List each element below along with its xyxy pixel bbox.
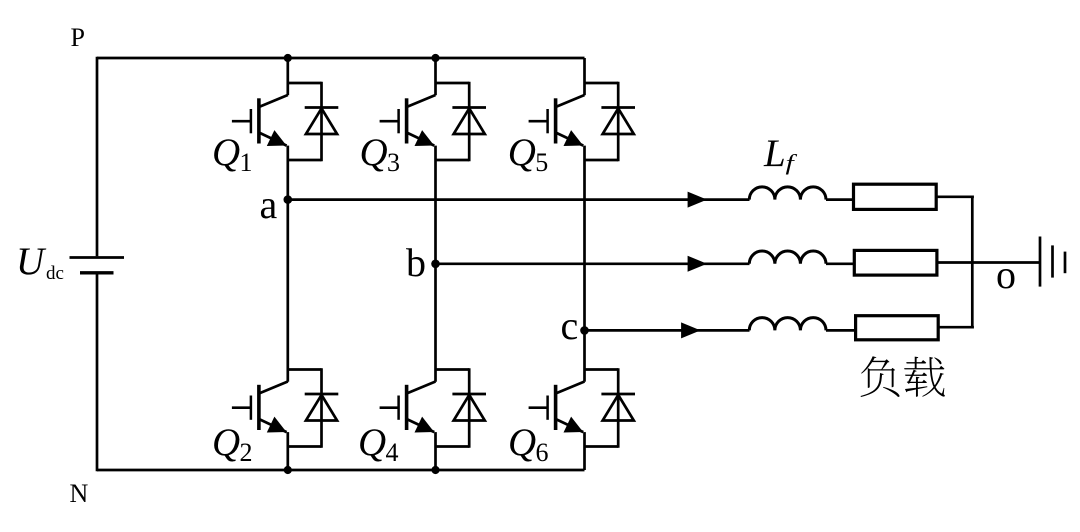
- svg-text:5: 5: [535, 148, 548, 177]
- wire: emitter of Q5: [583, 146, 586, 331]
- svg-text:Q: Q: [508, 421, 536, 464]
- transistor Q6 (IGBT): [529, 382, 585, 433]
- junction: P rail / leg b: [431, 54, 439, 62]
- wire: positive DC rail (P): [97, 57, 585, 60]
- wire: collector of Q4: [434, 264, 437, 382]
- label Q1: [212, 131, 253, 177]
- label Q6: [508, 421, 549, 467]
- arrow: phase c current direction: [681, 322, 700, 338]
- wire: inductor to load resistor phase c: [826, 329, 856, 332]
- diode D3 (anti-parallel with Q3): [436, 82, 487, 161]
- svg-text:L: L: [763, 132, 786, 175]
- transistor Q1 (IGBT): [232, 95, 288, 146]
- node P label: [71, 23, 85, 52]
- junction: N rail / leg b: [431, 466, 439, 474]
- label Q5: [508, 131, 549, 177]
- svg-text:Q: Q: [358, 421, 386, 464]
- svg-text:1: 1: [240, 148, 253, 177]
- label: 负载 (load): [861, 356, 945, 397]
- ground (earth) symbol: [1040, 237, 1065, 287]
- wire: collector of Q6: [583, 330, 586, 381]
- transistor Q2 (IGBT): [232, 382, 288, 433]
- svg-text:Q: Q: [508, 131, 536, 174]
- wire: phase c output line: [585, 329, 750, 332]
- wire: collector of Q3: [434, 58, 437, 95]
- wire: collector of Q2: [286, 200, 289, 382]
- inductor Lf phase c: [749, 318, 826, 331]
- wire: collector of Q5: [583, 58, 586, 95]
- svg-text:4: 4: [386, 438, 399, 467]
- arrow: phase a current direction: [688, 192, 707, 208]
- wire: emitter of Q2: [286, 432, 289, 470]
- wire: inductor to load resistor phase a: [826, 198, 854, 201]
- resistor: load phase c: [856, 316, 939, 340]
- junction: P rail / leg a: [284, 54, 292, 62]
- node c: [580, 326, 589, 335]
- label Lf (filter inductor): [763, 132, 798, 175]
- wire: DC source to N rail: [96, 275, 99, 472]
- junction: N rail / leg a: [284, 466, 292, 474]
- label Udc: [16, 240, 64, 284]
- wire: neutral bus vertical: [971, 196, 974, 329]
- label a: [260, 182, 278, 227]
- resistor: load phase b: [854, 250, 937, 275]
- arrow: phase b current direction: [688, 256, 707, 272]
- diode D1 (anti-parallel with Q1): [288, 82, 339, 161]
- wire: collector of Q1: [286, 58, 289, 95]
- transistor Q5 (IGBT): [529, 95, 585, 146]
- battery Udc (DC voltage source): [70, 258, 125, 273]
- wire: DC source to P rail: [96, 57, 99, 256]
- svg-text:Q: Q: [360, 131, 388, 174]
- svg-text:o: o: [996, 252, 1016, 297]
- svg-text:2: 2: [240, 438, 253, 467]
- svg-text:dc: dc: [46, 263, 64, 284]
- svg-text:P: P: [71, 23, 85, 52]
- wire: load c to neutral bus: [938, 326, 974, 329]
- wire: load b to ground (node o): [937, 261, 1039, 264]
- node a: [284, 195, 293, 204]
- diode D6 (anti-parallel with Q6): [585, 368, 636, 447]
- svg-text:6: 6: [536, 438, 549, 467]
- wire: emitter of Q3: [434, 146, 437, 264]
- resistor: load phase a: [854, 184, 937, 209]
- node b: [431, 260, 440, 269]
- svg-text:Q: Q: [212, 131, 240, 174]
- inductor Lf phase a: [749, 187, 826, 200]
- svg-text:Q: Q: [212, 421, 240, 464]
- wire: inductor to load resistor phase b: [826, 262, 854, 265]
- label c: [561, 303, 579, 348]
- svg-text:c: c: [561, 303, 579, 348]
- node N label: [70, 479, 89, 508]
- wire: emitter of Q6: [583, 432, 586, 470]
- label Q3: [360, 131, 401, 177]
- wire: phase a output line: [288, 198, 750, 201]
- svg-text:a: a: [260, 182, 278, 227]
- inductor Lf phase b: [749, 251, 826, 264]
- wire: load a to neutral bus: [936, 195, 974, 198]
- label Q2: [212, 421, 253, 467]
- diode D5 (anti-parallel with Q5): [585, 82, 636, 161]
- diode D2 (anti-parallel with Q2): [288, 368, 339, 447]
- wire: negative DC rail (N): [97, 469, 585, 472]
- transistor Q4 (IGBT): [380, 382, 436, 433]
- svg-text:b: b: [406, 240, 426, 285]
- wire: emitter of Q4: [434, 432, 437, 470]
- wire: phase b output line: [436, 262, 750, 265]
- label b: [406, 240, 426, 285]
- svg-text:U: U: [16, 240, 47, 283]
- svg-text:N: N: [70, 479, 89, 508]
- wire: emitter of Q1: [286, 146, 289, 200]
- label Q4: [358, 421, 399, 467]
- svg-text:3: 3: [387, 148, 400, 177]
- diode D4 (anti-parallel with Q4): [436, 368, 487, 447]
- node o label: [996, 252, 1016, 297]
- transistor Q3 (IGBT): [380, 95, 436, 146]
